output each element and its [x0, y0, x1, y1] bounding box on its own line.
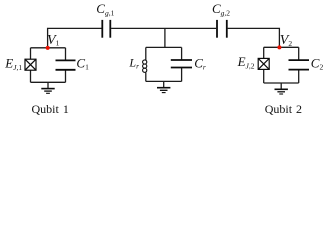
- wire qubit2 ground stub: [280, 83, 282, 89]
- node V1 (red dot): [46, 46, 50, 50]
- wire feed resonator (bus to resonator rail): [164, 28, 166, 47]
- wire resonator right branch lower stub: [181, 68, 183, 82]
- qubit 1 loop top rail: [31, 47, 66, 49]
- capacitor C2: [289, 60, 310, 70]
- svg-text:C2: C2: [311, 55, 324, 71]
- wire qubit1 ground stub: [47, 82, 49, 88]
- capacitor C1: [56, 60, 76, 69]
- capacitor Cg1: [102, 20, 110, 38]
- svg-text:Cg,1: Cg,1: [96, 1, 114, 18]
- svg-text:EJ,2: EJ,2: [237, 54, 255, 70]
- wire qubit1 right branch lower stub: [65, 70, 67, 83]
- wire resonator right branch upper stub: [181, 47, 183, 60]
- wire qubit2 right branch lower stub: [298, 70, 300, 83]
- svg-text:Qubit 1: Qubit 1: [32, 102, 69, 116]
- svg-text:Cg,2: Cg,2: [212, 1, 230, 18]
- wire qubit2 right branch upper stub: [298, 47, 300, 60]
- wire top bus middle segment (Cg1 to Cg2): [111, 27, 216, 29]
- wire top bus left segment (V1 corner to Cg1): [48, 28, 102, 47]
- ground qubit2: [275, 89, 288, 94]
- qubit 2 loop bottom rail: [264, 82, 299, 84]
- josephson junction EJ1 box: [25, 59, 36, 70]
- svg-text:Cr: Cr: [194, 55, 206, 71]
- capacitor Cr: [171, 60, 192, 68]
- wire resonator ground stub: [163, 81, 165, 87]
- wire qubit2 left branch lower stub: [263, 69, 265, 83]
- svg-text:EJ,1: EJ,1: [4, 55, 22, 71]
- wire top bus right segment (Cg2 to V2 corner): [228, 28, 280, 47]
- wire qubit1 right branch upper stub: [65, 48, 67, 61]
- wire qubit1 left branch lower stub: [30, 70, 32, 82]
- svg-text:Lr: Lr: [128, 56, 139, 71]
- resonator loop bottom rail: [146, 80, 182, 82]
- svg-text:C1: C1: [76, 55, 89, 71]
- qubit 1 loop bottom rail: [31, 81, 66, 83]
- svg-text:V1: V1: [47, 33, 60, 48]
- ground resonator: [157, 88, 170, 93]
- qubit 2 loop top rail: [264, 46, 299, 48]
- josephson junction EJ2 box: [258, 58, 269, 69]
- capacitor Cg2: [217, 20, 227, 38]
- wire resonator left branch upper stub: [145, 47, 147, 60]
- inductor Lr coil: [143, 60, 147, 72]
- wire qubit2 left branch upper stub: [263, 47, 265, 58]
- ground qubit1: [41, 89, 54, 94]
- svg-text:V2: V2: [280, 33, 293, 48]
- wire resonator left branch lower stub: [145, 72, 147, 81]
- wire qubit1 left branch upper stub: [30, 48, 32, 59]
- resonator loop top rail: [146, 46, 182, 48]
- svg-text:Qubit 2: Qubit 2: [265, 102, 302, 116]
- node V2 (red dot): [277, 45, 281, 49]
